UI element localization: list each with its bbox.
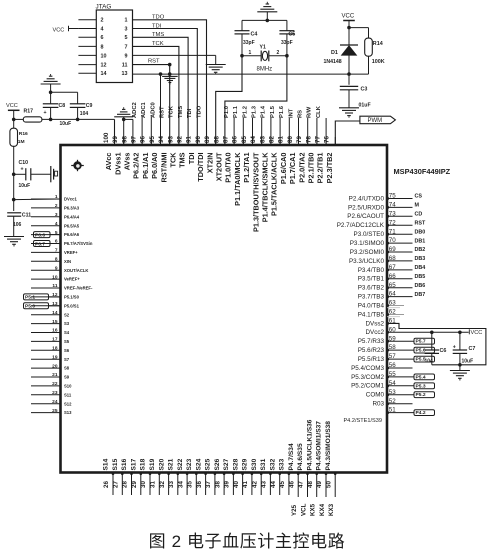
U1 top pin 92 (TMS) <box>187 137 189 145</box>
net label INT <box>298 118 300 145</box>
svg-text:11: 11 <box>122 63 128 69</box>
node RST junction at y64.6 <box>168 63 172 67</box>
svg-text:DB1: DB1 <box>415 238 426 244</box>
U1 left pin 9 (XOUT/ACLK) <box>31 269 61 271</box>
net label P1.6 <box>288 118 290 145</box>
capacitor C6 104 <box>431 332 433 350</box>
U1 left pin 21 (S9) <box>31 376 61 378</box>
capacitor C10 10uF <box>12 173 16 177</box>
svg-text:87: 87 <box>223 136 230 143</box>
svg-text:40: 40 <box>233 481 240 488</box>
svg-text:S21: S21 <box>168 458 175 470</box>
svg-text:S24: S24 <box>195 458 202 470</box>
svg-text:DVss1: DVss1 <box>113 153 122 175</box>
svg-text:88: 88 <box>213 136 220 143</box>
net flag P5.4 on right pin 55 <box>387 376 414 378</box>
svg-text:TCK: TCK <box>169 152 178 168</box>
svg-text:S28: S28 <box>232 458 239 470</box>
svg-text:P4.2/STE1/S39: P4.2/STE1/S39 <box>343 418 382 424</box>
wire JTAG TMS to U1 pin 92 <box>133 37 189 145</box>
U1 left pin 2 (P6.3/A3) <box>31 207 61 209</box>
svg-text:P1.2: P1.2 <box>242 106 248 118</box>
svg-text:P4.6/S35: P4.6/S35 <box>297 443 304 470</box>
svg-text:P5.4/COM3: P5.4/COM3 <box>351 365 384 372</box>
U1 top pin 76 (P2.3/TB2) <box>334 137 336 145</box>
svg-text:P2.7/ADC12CLK: P2.7/ADC12CLK <box>337 222 385 229</box>
svg-text:C9: C9 <box>86 103 93 109</box>
capacitor C9 104 <box>76 118 80 122</box>
svg-text:S9: S9 <box>64 375 70 380</box>
svg-text:5: 5 <box>125 35 128 41</box>
wire DVss2 pin 61 loop to ground rail <box>387 323 486 364</box>
crystal Y1 8MHz <box>242 55 261 57</box>
svg-text:P1.5/TACLK/ACLK: P1.5/TACLK/ACLK <box>270 152 279 216</box>
svg-text:P5.5/R13: P5.5/R13 <box>358 356 385 363</box>
svg-text:S20: S20 <box>158 458 165 470</box>
U1 top pin 87 (P1.0/TA0) <box>233 137 235 145</box>
ground hanging below RST rail <box>169 74 171 76</box>
svg-text:DB3: DB3 <box>415 256 426 262</box>
svg-text:4: 4 <box>101 26 104 32</box>
svg-text:P5.1: P5.1 <box>25 295 35 301</box>
svg-text:41: 41 <box>242 481 249 488</box>
svg-text:89: 89 <box>204 136 211 143</box>
wire right pin 72 to net RST <box>387 224 413 226</box>
wire JTAG TDO to U1 pin 90 <box>133 20 207 145</box>
node reset net junction <box>347 72 351 76</box>
svg-text:P5.7/R33: P5.7/R33 <box>358 338 385 345</box>
svg-text:S30: S30 <box>251 458 258 470</box>
U1 left pin 14 (S2) <box>31 314 61 316</box>
svg-text:98: 98 <box>121 136 128 143</box>
U1 left pin 5 (P6.6/A6) <box>31 234 61 236</box>
U1 top pin 80 (P1.7/CA1) <box>298 137 300 145</box>
svg-text:C4: C4 <box>251 32 258 38</box>
net flag P5.2 on right pin 53 <box>387 394 414 396</box>
svg-text:P6.6/A6: P6.6/A6 <box>64 232 80 237</box>
svg-text:P5.6/R23: P5.6/R23 <box>358 347 385 354</box>
node VCC/R17/R16 junction <box>12 118 16 122</box>
svg-text:P5.0/S1: P5.0/S1 <box>64 303 80 308</box>
svg-text:AVcc: AVcc <box>104 153 113 171</box>
wire ADC0 pin up to rail <box>160 74 162 145</box>
svg-text:D1: D1 <box>331 50 338 56</box>
U1 bottom pin 40 (S28) <box>242 473 244 496</box>
svg-text:78: 78 <box>305 136 312 143</box>
svg-text:S15: S15 <box>112 458 119 470</box>
svg-text:S26: S26 <box>214 458 221 470</box>
net flag P5.6 on right pin 58 <box>387 349 414 351</box>
svg-text:R17: R17 <box>24 108 34 114</box>
svg-text:14: 14 <box>101 71 107 77</box>
svg-text:10uF: 10uF <box>60 121 72 127</box>
wire right pin 66 to net DB5 <box>387 278 413 280</box>
capacitor C2 against IC edge <box>50 166 52 182</box>
U1 bottom pin 27 (S15) <box>121 473 123 496</box>
U1 right pin 63 (P4.0/TB4) <box>387 305 404 307</box>
svg-text:14: 14 <box>52 310 58 316</box>
svg-text:TDI: TDI <box>187 108 193 118</box>
U1 bottom pin 43 (S31) <box>269 473 271 496</box>
U1 left pin 4 (P6.5/A5) <box>31 225 61 227</box>
svg-text:29: 29 <box>131 481 138 488</box>
svg-text:3: 3 <box>55 212 58 218</box>
wire AVcc rail <box>42 118 115 120</box>
svg-text:1M: 1M <box>18 139 25 145</box>
net flag P6.7 on left pin 6 <box>34 241 51 247</box>
net label P1.2 <box>252 118 254 145</box>
svg-text:P2.5/URXD0: P2.5/URXD0 <box>348 204 385 211</box>
svg-text:P2.6/CAOUT: P2.6/CAOUT <box>347 213 384 220</box>
svg-text:81: 81 <box>278 136 285 143</box>
svg-text:22: 22 <box>52 381 58 387</box>
ground for C6/C7 rail <box>459 365 461 371</box>
svg-text:38: 38 <box>214 481 221 488</box>
node crystal pin1 <box>240 54 244 58</box>
svg-text:33pF: 33pF <box>281 40 293 46</box>
net label P1.1 <box>242 118 244 145</box>
U1 top pin 99 (DVss1) <box>123 137 125 145</box>
svg-text:7: 7 <box>55 248 58 254</box>
U1 bottom pin 50 (P4.3/SIMO1/S38) <box>334 473 336 498</box>
svg-text:P6.5/A5: P6.5/A5 <box>64 223 80 228</box>
wire right pin 71 to net DB0 <box>387 233 413 235</box>
svg-text:AVss: AVss <box>123 153 132 171</box>
svg-text:DB7: DB7 <box>415 292 426 298</box>
svg-text:P4.0/TB4: P4.0/TB4 <box>358 302 385 309</box>
net label P1.4 <box>270 118 272 145</box>
U1 left pin 17 (S5) <box>31 340 61 342</box>
net flag P5.5 on right pin 57 <box>387 358 414 360</box>
svg-text:P5.7: P5.7 <box>416 339 426 345</box>
svg-text:P1.0/TA0: P1.0/TA0 <box>224 153 233 183</box>
svg-text:DB4: DB4 <box>415 265 426 271</box>
svg-text:94: 94 <box>158 136 165 143</box>
ground on JTAG pin 9 <box>215 55 217 64</box>
svg-text:48: 48 <box>307 481 314 488</box>
wire right pin 73 to net CD <box>387 215 413 217</box>
U1 left pin 13 (P5.0/S1) <box>31 305 61 307</box>
svg-text:S3: S3 <box>64 321 70 326</box>
svg-text:S2: S2 <box>64 312 70 317</box>
node DVcc1 junction <box>12 198 16 202</box>
svg-text:80: 80 <box>287 136 294 143</box>
wire right pin 52 stub <box>387 403 413 405</box>
svg-text:S25: S25 <box>205 458 212 470</box>
svg-text:TCK: TCK <box>152 41 164 47</box>
svg-text:P2.1/TB0: P2.1/TB0 <box>307 153 316 184</box>
svg-text:TMS: TMS <box>152 32 164 38</box>
U1 bottom pin 37 (S25) <box>214 473 216 496</box>
svg-text:S17: S17 <box>131 458 138 470</box>
svg-text:RST: RST <box>148 59 160 65</box>
port PWM <box>360 116 396 124</box>
wire JTAG TDI to U1 pin 91 <box>133 29 198 146</box>
svg-text:37: 37 <box>205 481 212 488</box>
svg-text:TMS: TMS <box>178 152 187 168</box>
wire right pin 67 to net DB4 <box>387 269 413 271</box>
svg-text:34: 34 <box>177 481 184 488</box>
svg-text:85: 85 <box>241 136 248 143</box>
svg-text:P6.0/A0: P6.0/A0 <box>150 153 159 179</box>
svg-text:INT: INT <box>288 108 294 118</box>
svg-text:C8: C8 <box>59 103 66 109</box>
wire DVcc2 pin 60 to VCC <box>387 331 469 333</box>
capacitor C3 0.1uF <box>348 74 350 85</box>
svg-text:P5.3/COM2: P5.3/COM2 <box>351 374 384 381</box>
svg-text:18: 18 <box>52 346 58 352</box>
svg-text:VCC: VCC <box>342 14 355 20</box>
svg-text:42: 42 <box>251 481 258 488</box>
svg-text:COM0: COM0 <box>366 392 385 399</box>
U1 bottom pin 39 (S27) <box>232 473 234 496</box>
svg-text:S4: S4 <box>64 330 70 335</box>
svg-text:TDI: TDI <box>187 153 196 165</box>
svg-text:6: 6 <box>101 35 104 41</box>
svg-text:P3.1/SIMO0: P3.1/SIMO0 <box>350 240 385 247</box>
U1 top pin 97 (P6.2/A2) <box>141 137 143 145</box>
U1 left pin 20 (S8) <box>31 367 61 369</box>
svg-text:P3.5/TB1: P3.5/TB1 <box>358 276 385 283</box>
svg-text:图 2 电子血压计主控电路: 图 2 电子血压计主控电路 <box>149 532 346 551</box>
U1 left pin 10 (VeREF+) <box>31 278 61 280</box>
U1 bottom pin 44 (S32) <box>279 473 281 496</box>
wire JTAG TCK to U1 pin 93 <box>133 46 179 145</box>
net flag P5.3 on right pin 54 <box>387 385 414 387</box>
svg-text:DB0: DB0 <box>415 229 426 235</box>
svg-text:PWM: PWM <box>368 118 383 124</box>
capacitor C5 33pF <box>286 20 288 30</box>
svg-text:28: 28 <box>122 481 129 488</box>
svg-text:TDO: TDO <box>152 15 165 21</box>
svg-text:P6.1/A1: P6.1/A1 <box>141 153 150 179</box>
pin-1 marker diamond <box>71 160 84 171</box>
ground below C3 <box>339 107 359 109</box>
U1 bottom pin 29 (S17) <box>140 473 142 496</box>
U1 bottom pin 45 (S33) <box>288 473 290 496</box>
svg-text:9: 9 <box>55 265 58 271</box>
svg-text:R03: R03 <box>372 401 384 408</box>
U1 left pin 22 (S10) <box>31 385 61 387</box>
wire JTAG RST to U1 pin 94 <box>133 65 170 145</box>
svg-text:8: 8 <box>55 257 58 263</box>
svg-text:P6.6: P6.6 <box>35 232 45 238</box>
svg-text:S6: S6 <box>64 348 70 353</box>
svg-text:+: + <box>44 110 47 116</box>
U1 left pin 23 (S11) <box>31 394 61 396</box>
svg-text:15: 15 <box>52 319 58 325</box>
svg-text:P5.2/COM1: P5.2/COM1 <box>351 383 384 390</box>
svg-text:R16: R16 <box>19 131 28 137</box>
svg-text:1: 1 <box>249 50 252 56</box>
svg-text:DB5: DB5 <box>415 274 426 280</box>
svg-text:3: 3 <box>125 26 128 32</box>
svg-text:DVcc2: DVcc2 <box>365 329 384 336</box>
U1 bottom pin 31 (S19) <box>158 473 160 496</box>
svg-text:RST/NMI: RST/NMI <box>159 153 168 183</box>
svg-text:31: 31 <box>150 481 157 488</box>
svg-text:P1.5: P1.5 <box>270 105 276 118</box>
wire right pin 56 stub <box>387 367 413 369</box>
svg-text:C7: C7 <box>469 346 476 352</box>
svg-text:32: 32 <box>159 481 166 488</box>
svg-text:8: 8 <box>101 44 104 50</box>
net label CLK <box>325 118 327 145</box>
U1 top pin 77 (P2.2/TB1) <box>325 137 327 145</box>
node RST junction at y74.1 <box>168 72 172 76</box>
svg-text:TDO: TDO <box>196 105 202 118</box>
svg-text:12: 12 <box>101 63 107 69</box>
svg-text:VCC: VCC <box>471 330 483 336</box>
svg-text:P1.3: P1.3 <box>252 105 258 118</box>
svg-text:M: M <box>415 203 420 209</box>
svg-text:100K: 100K <box>372 59 385 65</box>
capacitor C7 10uF polarized <box>459 332 461 350</box>
svg-text:83: 83 <box>259 136 266 143</box>
capacitor C8 10uF polarized <box>49 118 53 122</box>
svg-text:P5.1/S0: P5.1/S0 <box>64 295 80 300</box>
U1 left pin 24 (S12) <box>31 403 61 405</box>
U1 top pin 85 (P1.2/TA1) <box>252 137 254 145</box>
svg-text:20: 20 <box>52 363 58 369</box>
svg-text:7: 7 <box>125 44 128 50</box>
svg-text:P4.2: P4.2 <box>416 410 426 416</box>
svg-text:DVss2: DVss2 <box>365 320 384 327</box>
svg-text:P1.2/TA1: P1.2/TA1 <box>242 153 251 183</box>
U1 left pin 12 (P5.1/S0) <box>31 296 61 298</box>
svg-text:P2.3/TB2: P2.3/TB2 <box>325 153 334 184</box>
svg-text:S32: S32 <box>269 458 276 470</box>
resistor R17 <box>14 118 24 120</box>
net label ADC2 <box>141 117 143 145</box>
U1 top pin 82 (P1.5/TACLK/ACLK) <box>279 137 281 145</box>
svg-text:ADC2: ADC2 <box>132 102 138 118</box>
U1 left pin 3 (P6.4/A4) <box>31 216 61 218</box>
U1 left pin 1 (DVcc1) <box>31 198 61 200</box>
svg-text:99: 99 <box>112 136 119 143</box>
net label P1.3 <box>261 118 263 145</box>
svg-text:26: 26 <box>103 481 110 488</box>
svg-text:+: + <box>453 345 456 351</box>
svg-text:VREF-/VeREF-: VREF-/VeREF- <box>64 286 93 291</box>
svg-text:44: 44 <box>270 481 277 488</box>
svg-text:10: 10 <box>52 274 58 280</box>
svg-text:P5.4: P5.4 <box>416 374 426 380</box>
svg-text:S8: S8 <box>64 366 70 371</box>
svg-text:S29: S29 <box>242 458 249 470</box>
svg-text:P5.0: P5.0 <box>25 304 35 310</box>
svg-text:49: 49 <box>316 481 323 488</box>
svg-text:P6.4/A4: P6.4/A4 <box>64 214 80 219</box>
U1 top pin 86 (P1.1/TA0/MCLK) <box>242 137 244 145</box>
svg-text:P2.4/UTXD0: P2.4/UTXD0 <box>349 195 385 202</box>
svg-text:2: 2 <box>55 203 58 209</box>
U1 bottom pin 30 (S18) <box>149 473 151 496</box>
wire right pin 65 to net DB6 <box>387 287 413 289</box>
U1 top pin 94 (RST/NMI) <box>169 137 171 145</box>
U1 left pin 6 (P6.7/A7/SVSin) <box>31 243 61 245</box>
U1 bottom pin 33 (S21) <box>177 473 179 496</box>
svg-text:P1.4: P1.4 <box>261 105 267 118</box>
U1 top pin 91 (TDI) <box>196 137 198 145</box>
U1 bottom pin 35 (S23) <box>195 473 197 496</box>
svg-text:33: 33 <box>168 481 175 488</box>
U1 bottom pin 38 (S26) <box>223 473 225 496</box>
svg-text:S31: S31 <box>260 458 267 470</box>
svg-text:9: 9 <box>125 53 128 59</box>
U1 top pin 100 (AVcc) <box>114 137 116 145</box>
net label ADC1 <box>150 117 152 145</box>
net flag P5.0 on left pin 13 <box>24 303 49 309</box>
svg-text:10uF: 10uF <box>19 183 31 189</box>
svg-text:P2.0/TA2: P2.0/TA2 <box>297 153 306 183</box>
svg-text:P4.1/TB5: P4.1/TB5 <box>358 311 385 318</box>
U1 top pin 88 (XT2OUT) <box>224 137 226 145</box>
svg-text:P6.7/A7/SVSin: P6.7/A7/SVSin <box>64 241 93 246</box>
capacitor C4 33pF <box>241 20 243 30</box>
svg-text:RS: RS <box>298 110 304 118</box>
svg-text:35: 35 <box>187 481 194 488</box>
svg-text:63: 63 <box>389 300 396 307</box>
wire JTAG pin 9 to ground <box>133 54 216 56</box>
U1 left pin 11 (VREF-/VeREF-) <box>31 287 61 289</box>
svg-text:XOUT/ACLK: XOUT/ACLK <box>64 268 88 273</box>
wire JTAG pin 13 long RST rail <box>133 73 369 75</box>
net flag P5.1 on left pin 12 <box>24 294 49 300</box>
svg-text:S27: S27 <box>223 458 230 470</box>
svg-text:106: 106 <box>13 222 22 228</box>
ground below C11 <box>4 236 24 238</box>
svg-text:25: 25 <box>52 408 58 414</box>
svg-text:S14: S14 <box>103 458 110 470</box>
svg-text:S13: S13 <box>64 410 72 415</box>
svg-text:R/W: R/W <box>307 106 313 118</box>
svg-text:ADC0: ADC0 <box>150 102 156 118</box>
svg-text:P1.1/TA0/MCLK: P1.1/TA0/MCLK <box>233 152 242 206</box>
svg-text:R14: R14 <box>373 41 383 47</box>
svg-text:+: + <box>21 167 24 173</box>
svg-text:VeREF+: VeREF+ <box>64 277 80 282</box>
svg-text:104: 104 <box>80 111 89 117</box>
wire U1 pin 76 to PWM port <box>335 121 360 145</box>
svg-text:17: 17 <box>52 337 58 343</box>
wire XT2OUT route <box>225 56 287 145</box>
svg-text:46: 46 <box>288 481 295 488</box>
svg-text:XT2OUT: XT2OUT <box>215 152 224 181</box>
svg-text:90: 90 <box>195 136 202 143</box>
svg-text:VCL: VCL <box>301 503 308 516</box>
ground above crystal (inverted) <box>257 11 277 13</box>
node VCC/R14 branch <box>347 26 351 30</box>
svg-text:Y25: Y25 <box>291 504 298 516</box>
U1 left pin 18 (S6) <box>31 349 61 351</box>
svg-text:VCC: VCC <box>53 27 65 33</box>
svg-text:ADC1: ADC1 <box>141 101 147 118</box>
svg-text:P3.4/TB0: P3.4/TB0 <box>358 267 385 274</box>
svg-text:86: 86 <box>232 136 239 143</box>
U1 bottom pin 41 (S29) <box>251 473 253 496</box>
wire right pin 70 to net DB1 <box>387 242 413 244</box>
U1 left pin 8 (XIN) <box>31 260 61 262</box>
crystal top rail <box>242 19 287 21</box>
svg-text:62: 62 <box>389 309 396 316</box>
svg-text:C6: C6 <box>440 348 447 354</box>
svg-text:P3.6/TB2: P3.6/TB2 <box>358 285 385 292</box>
svg-text:21: 21 <box>52 372 58 378</box>
svg-text:47: 47 <box>298 481 305 488</box>
svg-text:P5.2: P5.2 <box>416 392 426 398</box>
svg-text:P3.3/UCLK0: P3.3/UCLK0 <box>349 258 384 265</box>
